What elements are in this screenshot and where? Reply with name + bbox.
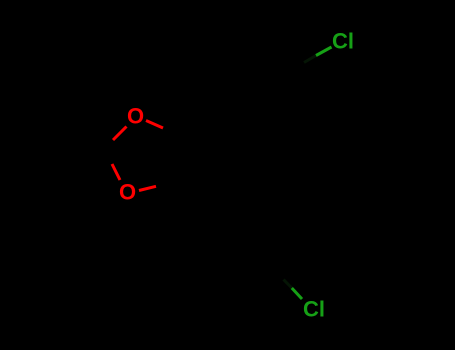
bond Cpara to Cl top (green half) <box>316 47 332 56</box>
svg-text:O: O <box>127 104 144 129</box>
bond O1 to C4 (red half) <box>146 121 163 129</box>
wire C-Cl dark half bottom (black) <box>275 271 284 280</box>
bond O2 to C5 (red half) <box>139 186 156 190</box>
svg-text:Cl: Cl <box>303 296 325 321</box>
wire C-Cl faint half top <box>304 56 316 63</box>
wire C4-C5 bond (black) <box>184 140 191 180</box>
top benzene ring (black) <box>221 52 296 134</box>
svg-text:Cl: Cl <box>332 29 354 54</box>
bottom benzene ring (black) <box>203 199 286 282</box>
wire C4-ipso1 bond (black) <box>191 117 225 141</box>
wire C2-methyl-b (black) <box>60 149 103 169</box>
bond O1 to C2 (red half) <box>113 127 127 141</box>
bond C2 to O2 (red half) <box>112 164 120 180</box>
svg-text:O: O <box>119 179 136 204</box>
wire C-Cl dark half top (black) <box>292 63 304 70</box>
wire C5-ipso2 bond (black) <box>184 180 214 210</box>
wire C-Cl faint half bottom <box>284 280 292 289</box>
wire C2-methyl-a (black, invisible on bg) <box>60 129 103 149</box>
bond Cpara to Cl bottom (green half) <box>292 288 302 299</box>
